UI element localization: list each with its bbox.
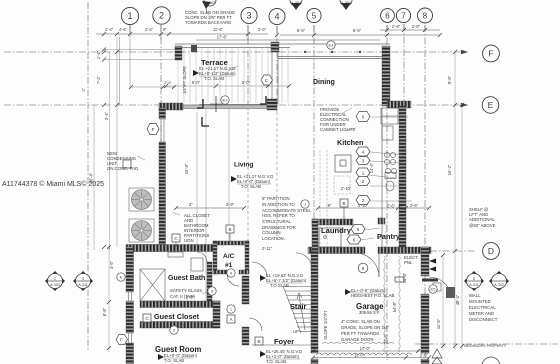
svg-text:1/4"/FT SLOPE: 1/4"/FT SLOPE — [182, 66, 187, 94]
wall: hall/foyer west vertical — [242, 276, 249, 304]
svg-text:T.O. SLAB: T.O. SLAB — [241, 184, 261, 189]
leader lines — [137, 14, 412, 294]
svg-text:@60" ABOVE: @60" ABOVE — [469, 223, 496, 228]
svg-text:A-311: A-311 — [78, 283, 88, 287]
terrace 6'-0 dim line — [166, 85, 290, 87]
garage door cloud bottom — [316, 353, 412, 355]
svg-text:E5: E5 — [431, 287, 437, 292]
grid bubble E — [482, 97, 499, 114]
svg-text:SAFETY GLASS: SAFETY GLASS — [170, 288, 202, 293]
hex 2a — [356, 177, 370, 186]
svg-text:E: E — [120, 275, 123, 280]
hall door arc upper stair — [252, 262, 267, 277]
window: left wall lower gap — [128, 333, 130, 343]
grid horizontals dash-dot F / E / neighbors line — [4, 52, 558, 344]
svg-text:309.56 S.F.: 309.56 S.F. — [359, 310, 380, 315]
electrical L-mark living north — [197, 99, 203, 108]
grid bubble 1 — [121, 7, 138, 24]
svg-text:17'-6": 17'-6" — [217, 35, 228, 40]
svg-text:-9": -9" — [326, 203, 332, 208]
section markers bottom — [45, 271, 509, 291]
svg-text:6: 6 — [362, 266, 365, 271]
EL note underlines — [164, 76, 384, 359]
condensing units — [129, 188, 154, 242]
right rotated dim labels — [182, 66, 460, 344]
building top edge lines — [175, 44, 390, 108]
circle tags — [117, 41, 437, 334]
svg-text:MOUNTED: MOUNTED — [469, 299, 491, 304]
wall: kitchen east vertical — [399, 106, 406, 248]
shower with X — [140, 269, 165, 301]
svg-text:8'-8": 8'-8" — [102, 307, 107, 316]
svg-text:CAT. II (TYP): CAT. II (TYP) — [170, 294, 196, 299]
wall: pantry/garage horizontal — [398, 247, 431, 254]
svg-text:METER AND: METER AND — [469, 311, 494, 316]
left dim ticks — [102, 50, 119, 350]
wall: terrace small column — [191, 45, 197, 52]
section A-302 right — [489, 271, 509, 291]
svg-text:-3": -3" — [187, 202, 193, 207]
svg-text:DISCONNECT: DISCONNECT — [469, 317, 498, 322]
svg-text:1: 1 — [127, 11, 132, 21]
stair up arrow — [297, 293, 305, 330]
top dim line A — [96, 33, 268, 35]
svg-text:HEIGHEST P.O. SLAB: HEIGHEST P.O. SLAB — [351, 293, 394, 298]
svg-text:STRUCTURAL: STRUCTURAL — [262, 219, 291, 224]
glazed sliding door terrace/living — [183, 105, 267, 109]
svg-text:4'-6": 4'-6" — [109, 260, 114, 269]
svg-text:2'-8": 2'-8" — [392, 24, 401, 29]
section 3/A-311 — [73, 271, 93, 291]
arrowhead E line — [461, 103, 468, 107]
svg-text:J: J — [304, 202, 306, 207]
grid bubble F — [483, 45, 500, 62]
top section banners — [202, 0, 352, 14]
stair bottom door arc — [296, 253, 312, 269]
hex 5 laundry — [351, 225, 365, 234]
svg-text:WALL: WALL — [469, 293, 481, 298]
hex 5 kitchen — [356, 112, 370, 122]
small interior dims — [164, 80, 418, 209]
svg-text:Dining: Dining — [313, 79, 335, 86]
svg-text:HSS. REFER TO: HSS. REFER TO — [262, 213, 295, 218]
top dim labels — [105, 24, 421, 40]
svg-text:Foyer: Foyer — [274, 337, 294, 346]
svg-text:2'-11": 2'-11" — [262, 246, 273, 251]
svg-text:1'-4": 1'-4" — [96, 50, 101, 59]
banner A-303 left — [204, 0, 216, 6]
svg-text:9'-6": 9'-6" — [447, 75, 452, 84]
svg-text:6: 6 — [385, 12, 390, 21]
square tags — [123, 160, 348, 345]
svg-text:16'-4": 16'-4" — [89, 172, 94, 183]
grid bubble 5 — [307, 8, 321, 22]
wall: guest closet north — [140, 301, 220, 308]
svg-text:F: F — [152, 127, 155, 132]
svg-text:NEIGHBORS PROPERTY: NEIGHBORS PROPERTY — [464, 344, 507, 348]
pantry shelves dashed — [382, 224, 386, 247]
wall: terrace left column — [175, 46, 182, 60]
section C/A-303 — [45, 271, 65, 291]
door jamb tick living north — [215, 96, 217, 112]
electrical meter box — [446, 287, 455, 298]
svg-text:T.O. SLAB: T.O. SLAB — [164, 358, 184, 363]
wall: pantry north stub — [378, 218, 385, 224]
svg-text:2: 2 — [362, 179, 365, 184]
svg-text:2'-6": 2'-6" — [420, 353, 429, 358]
svg-text:2'-6": 2'-6" — [258, 27, 267, 32]
door track dots F line — [304, 51, 306, 53]
garage door arc — [355, 253, 379, 277]
hexagon tags — [116, 75, 370, 345]
svg-text:F: F — [120, 338, 123, 343]
svg-text:B: B — [228, 227, 231, 232]
svg-text:6'-0": 6'-0" — [192, 80, 201, 85]
svg-text:4: 4 — [362, 150, 365, 155]
svg-text:UP: UP — [293, 329, 299, 334]
window: living west — [160, 119, 162, 142]
svg-text:Guest Closet: Guest Closet — [154, 312, 200, 321]
grid bubble 3 — [241, 7, 257, 23]
svg-text:A-303: A-303 — [50, 283, 60, 287]
svg-text:7: 7 — [401, 12, 406, 21]
thin construction verticals — [94, 37, 462, 352]
wall: guest closet south — [140, 322, 218, 329]
wall: kitchen jog horizontal — [387, 101, 411, 108]
svg-text:PNL: PNL — [404, 260, 413, 265]
svg-text:A/C: A/C — [223, 253, 235, 260]
svg-text:PER FT TOWARDS: PER FT TOWARDS — [341, 331, 379, 336]
svg-text:1: 1 — [362, 171, 365, 176]
bath door arc — [197, 252, 207, 262]
hex 2b — [356, 196, 370, 205]
svg-text:Pantry: Pantry — [377, 232, 401, 241]
wall: terrace right column bottom / dining column — [267, 99, 277, 110]
elevation triangles — [158, 70, 351, 360]
svg-text:16'-2": 16'-2" — [447, 164, 452, 175]
svg-text:ON CONC. PAD: ON CONC. PAD — [107, 166, 138, 171]
svg-text:IN ADDITION TO: IN ADDITION TO — [262, 202, 295, 207]
svg-text:GARAGE DOOR: GARAGE DOOR — [341, 337, 373, 342]
svg-text:2': 2' — [81, 88, 86, 91]
svg-text:54'-8": 54'-8" — [392, 301, 397, 312]
hex F lower left — [116, 335, 128, 345]
foyer/guest door arc — [227, 274, 262, 331]
garage note cloud — [322, 342, 394, 344]
svg-text:17'-0": 17'-0" — [360, 346, 371, 351]
svg-text:3'-4": 3'-4" — [104, 111, 109, 120]
svg-text:8: 8 — [423, 12, 428, 21]
banner A-302 — [340, 0, 352, 6]
svg-text:3: 3 — [246, 11, 251, 21]
wall: guest bath east — [207, 262, 212, 301]
svg-text:4: 4 — [274, 12, 279, 22]
interior dim lines under note row — [176, 207, 429, 209]
partial bubble bottom right — [482, 357, 500, 364]
wall: lower-left jog horizontal — [126, 245, 166, 252]
wall: garage right vertical lower — [421, 294, 429, 353]
svg-text:2'-10": 2'-10" — [341, 186, 352, 191]
dark L near kitchen note — [260, 96, 266, 104]
garage dashed existing lines — [384, 256, 400, 352]
svg-text:2'-6": 2'-6" — [145, 27, 154, 32]
svg-text:SLOPE 1/4"/FT: SLOPE 1/4"/FT — [323, 310, 328, 340]
bubble stems — [130, 24, 425, 40]
svg-text:5: 5 — [312, 12, 317, 21]
svg-text:ADDITIONAL: ADDITIONAL — [469, 217, 495, 222]
svg-text:48'-4": 48'-4" — [455, 294, 460, 305]
terrace deck lines — [178, 48, 288, 103]
svg-text:GRADE, SLOPE DN 1/4": GRADE, SLOPE DN 1/4" — [341, 325, 390, 330]
arrowhead F line — [461, 50, 468, 54]
svg-text:3: 3 — [362, 159, 365, 164]
east entry door arc — [429, 277, 451, 298]
hex F left — [147, 124, 159, 135]
grid bubble 8 — [418, 8, 433, 23]
svg-text:A-302: A-302 — [494, 283, 504, 287]
svg-text:TOWARDS BACKYARD: TOWARDS BACKYARD — [185, 20, 231, 25]
svg-text:5: 5 — [362, 115, 365, 120]
svg-text:#1: #1 — [225, 262, 233, 269]
svg-text:Living: Living — [234, 162, 253, 169]
svg-text:C: C — [54, 276, 57, 281]
svg-text:7'-4": 7'-4" — [96, 75, 101, 84]
washer dryer in laundry — [319, 228, 341, 247]
wall: guest closet east — [213, 301, 220, 328]
svg-text:2: 2 — [362, 198, 365, 203]
svg-text:11'-6": 11'-6" — [436, 318, 441, 329]
banner A-303 mid — [290, 0, 302, 6]
wall: A/C closet — [213, 241, 249, 245]
grid bubble 6 — [381, 9, 395, 23]
svg-text:5: 5 — [357, 227, 360, 232]
grid bubble 7 — [396, 8, 410, 22]
svg-text:6'-6": 6'-6" — [297, 28, 306, 33]
svg-text:6'-6": 6'-6" — [353, 28, 362, 33]
svg-text:11'-6": 11'-6" — [213, 27, 224, 32]
section 2/A-311 right — [464, 271, 484, 291]
left rotated dim labels — [81, 88, 114, 316]
kitchen counter & appliances — [381, 108, 398, 247]
wall: laundry west — [312, 219, 318, 253]
kitchen back dashed cabinets — [320, 150, 350, 247]
svg-text:6" PARTITION: 6" PARTITION — [262, 196, 290, 201]
svg-text:B: B — [257, 339, 260, 344]
right dim ticks — [441, 50, 464, 348]
bottom dim lines — [252, 345, 429, 358]
grid bubble D — [483, 243, 500, 260]
wall: left exterior upper (living / guest bath) — [159, 108, 166, 119]
svg-text:D: D — [488, 246, 494, 256]
hex 6 laundry — [347, 235, 361, 244]
svg-text:2: 2 — [159, 11, 164, 21]
wall: top-left horizontal (terrace south / living north-west) — [159, 103, 183, 110]
svg-text:6: 6 — [353, 238, 356, 243]
wall: laundry north — [312, 219, 353, 225]
hex C terrace — [261, 75, 273, 85]
wall: garage west vertical — [311, 251, 318, 353]
wall: garage right vertical upper — [421, 247, 429, 276]
svg-text:T.O. SLAB: T.O. SLAB — [204, 76, 224, 81]
svg-text:11'-0": 11'-0" — [354, 353, 365, 358]
wall: terrace right column top — [271, 42, 279, 52]
wall: left exterior lower — [126, 247, 134, 292]
svg-text:4'-6": 4'-6" — [119, 27, 128, 32]
grid bubble 2 — [153, 7, 170, 24]
svg-text:Kitchen: Kitchen — [337, 138, 363, 147]
hex 1 — [356, 168, 370, 177]
svg-text:2'-6": 2'-6" — [410, 203, 419, 208]
kitchen island — [335, 155, 351, 172]
svg-text:2'-6": 2'-6" — [164, 81, 172, 85]
svg-text:16'-8": 16'-8" — [402, 272, 407, 283]
svg-text:1'-4": 1'-4" — [105, 27, 114, 32]
svg-text:E4: E4 — [329, 43, 335, 48]
svg-text:LOCATION.: LOCATION. — [262, 236, 285, 241]
bath fixtures — [168, 252, 203, 271]
svg-text:COLUMN: COLUMN — [262, 230, 281, 235]
svg-text:E3: E3 — [223, 98, 229, 103]
svg-text:6'-0": 6'-0" — [242, 80, 251, 85]
door arrows garage east — [429, 259, 436, 264]
svg-text:A-311: A-311 — [469, 283, 479, 287]
wall: mid horizontal laundry-garage segment — [308, 247, 365, 254]
svg-text:B: B — [342, 201, 345, 206]
roof overhang edge top-left — [104, 34, 175, 105]
stairs — [283, 286, 313, 333]
svg-text:Laundry: Laundry — [321, 226, 352, 235]
svg-text:E: E — [488, 100, 494, 110]
svg-text:T.O. SLAB: T.O. SLAB — [266, 359, 286, 364]
wall: kitchen north-east vertical — [382, 46, 390, 106]
svg-text:UON: UON — [184, 238, 194, 243]
grid verticals dash-dot — [88, 2, 425, 360]
svg-text:4" CONC. SLAB ON: 4" CONC. SLAB ON — [341, 319, 380, 324]
wall: main mid horizontal left segment — [133, 245, 213, 252]
hex 3 — [356, 157, 370, 165]
svg-text:16'-8": 16'-8" — [184, 163, 189, 174]
svg-text:2'-8": 2'-8" — [412, 24, 421, 29]
hex 4 — [356, 147, 370, 156]
window: left wall upper gap — [128, 292, 130, 301]
svg-text:Stair: Stair — [290, 302, 307, 311]
svg-text:T.O SLAB: T.O SLAB — [270, 283, 289, 288]
svg-text:8": 8" — [163, 27, 167, 32]
grid bubble 4 — [269, 9, 285, 25]
dim ticks top — [102, 28, 442, 37]
svg-text:F: F — [488, 49, 493, 59]
wall: mid horizontal pantry segment — [378, 247, 399, 254]
svg-text:ELECTRICAL: ELECTRICAL — [469, 305, 496, 310]
svg-text:Guest Bath: Guest Bath — [168, 275, 205, 282]
warning triangles bottom right — [432, 349, 442, 364]
electrical L-mark living — [202, 117, 209, 126]
svg-text:3'-9": 3'-9" — [226, 202, 235, 207]
svg-text:22'-6": 22'-6" — [384, 333, 389, 344]
